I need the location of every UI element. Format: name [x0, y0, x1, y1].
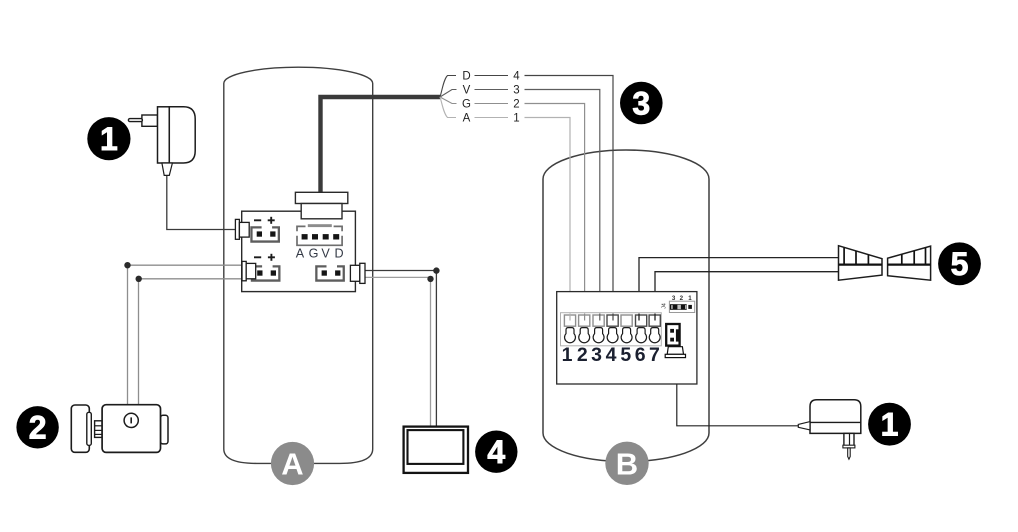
door lock release right half [888, 246, 931, 280]
A lower-left jack plug [242, 261, 256, 280]
svg-text:1: 1 [688, 295, 692, 302]
terminal 6 screw [636, 328, 647, 343]
wire tips into terminals [570, 314, 655, 321]
callout circle 2 [16, 406, 58, 448]
device label A [271, 442, 314, 485]
callout circle 3 [620, 82, 663, 125]
svg-text:7: 7 [649, 344, 660, 366]
A lower-left polarity marks - + [254, 256, 261, 258]
top-left power adapter [128, 107, 195, 176]
wire: B terminal 6 to door lock (upper) [639, 258, 839, 320]
svg-text:4: 4 [513, 71, 520, 83]
wire: top-left power adapter to A upper-left jack [167, 175, 236, 230]
svg-text:5: 5 [620, 344, 631, 366]
svg-text:5: 5 [951, 246, 969, 282]
A top connector block [301, 204, 342, 219]
svg-text:V: V [321, 247, 330, 261]
svg-text:3: 3 [591, 344, 602, 366]
callout circle 1 (bottom-right) [868, 403, 911, 446]
A right jack plug [350, 263, 365, 283]
device B (indoor monitor) outline [543, 150, 709, 461]
svg-text:6: 6 [635, 344, 646, 366]
svg-text:3: 3 [672, 295, 676, 302]
A lower-right speaker socket [315, 265, 345, 282]
A top connector wide bar [295, 192, 347, 203]
svg-text:1: 1 [562, 344, 573, 366]
terminal 3 slot [593, 315, 604, 326]
junction dot [136, 276, 142, 282]
junction dot [433, 267, 439, 273]
svg-text:1: 1 [513, 113, 519, 125]
svg-text:2: 2 [513, 99, 519, 111]
svg-text:3: 3 [632, 85, 650, 121]
terminal 1 screw [565, 328, 576, 343]
B power plug [665, 324, 685, 358]
svg-text:A: A [281, 447, 303, 482]
A upper-left speaker socket [250, 226, 280, 243]
svg-text:3: 3 [513, 85, 519, 97]
terminal 3 screw [593, 328, 604, 343]
wire D to device B terminal 4 [525, 76, 614, 321]
wire segment A label to number [475, 117, 509, 119]
monitor screen [404, 427, 468, 473]
svg-text:D: D [334, 247, 343, 261]
svg-text:4: 4 [487, 434, 505, 470]
terminal 5 slot [621, 315, 632, 326]
terminal 7 slot [649, 315, 660, 326]
thick bus wire from A top connector to fan-out [321, 97, 441, 194]
svg-text:J4: J4 [662, 303, 668, 309]
terminal 6 slot [636, 315, 647, 326]
svg-text:G: G [309, 247, 319, 261]
callout circle 5 [938, 242, 981, 285]
svg-text:V: V [463, 85, 471, 97]
terminal 2 slot [579, 315, 590, 326]
callout circle 1 (top-left) [87, 117, 130, 160]
wire segment G label to number [475, 103, 509, 105]
fan-out branch G [440, 97, 457, 104]
A lower-left speaker socket [251, 265, 281, 282]
wire A to device B terminal 1 [525, 118, 571, 321]
wire: B terminal 7 to door lock (lower) [655, 272, 839, 320]
junction dot [427, 276, 433, 282]
svg-text:4: 4 [606, 344, 617, 366]
svg-text:D: D [462, 71, 470, 83]
junction dot [124, 262, 130, 268]
device A terminal box [242, 211, 356, 291]
svg-text:1: 1 [100, 121, 118, 157]
jumper labels 3 2 1 [672, 295, 692, 302]
svg-text:B: B [616, 446, 638, 481]
device label B [605, 442, 648, 485]
wire: B power plug to bottom-right adapter [677, 357, 799, 426]
device B terminal box [557, 292, 697, 384]
svg-text:2: 2 [577, 344, 588, 366]
wire segment D label to number [475, 75, 509, 77]
terminal 4 slot [607, 315, 618, 326]
svg-text:A: A [296, 247, 305, 261]
svg-text:2: 2 [29, 410, 47, 446]
terminal 2 screw [579, 328, 590, 343]
terminal 5 screw [621, 328, 632, 343]
svg-text:G: G [462, 99, 471, 111]
device A (outdoor station) outline [224, 67, 373, 463]
svg-text:1: 1 [881, 407, 899, 443]
camera body [71, 405, 168, 453]
A upper-left polarity marks - + [254, 219, 261, 221]
wire: A right jack to monitor (dark) [364, 271, 436, 428]
wire: camera lower wire to A lower-left jack [139, 279, 243, 405]
fan-out branch D [440, 76, 456, 98]
AGVD label [296, 247, 344, 261]
bottom-right power adapter [798, 400, 861, 459]
wire segment V label to number [475, 89, 509, 91]
wire: A right jack to monitor (gray) [364, 277, 431, 427]
terminal numbers 1-7 [562, 344, 660, 366]
jumper J4 [669, 301, 694, 312]
svg-text:2: 2 [680, 295, 684, 302]
wire G to device B terminal 2 [525, 104, 585, 321]
terminal 7 screw [649, 328, 660, 343]
door lock release left half [839, 246, 883, 281]
fan-out branch V [440, 90, 457, 98]
terminal 4 screw [607, 328, 618, 343]
terminal 1 slot [564, 315, 575, 326]
fan-out branch A [440, 97, 456, 118]
terminal strip outline [561, 313, 662, 346]
wire V to device B terminal 3 [525, 90, 600, 321]
callout circle 4 [475, 431, 517, 473]
wire: camera upper wire to A lower-left jack [128, 265, 243, 405]
A upper-left jack plug [235, 219, 249, 239]
svg-text:A: A [463, 113, 471, 125]
A center 4-pin connector (AGVD) [297, 224, 342, 245]
